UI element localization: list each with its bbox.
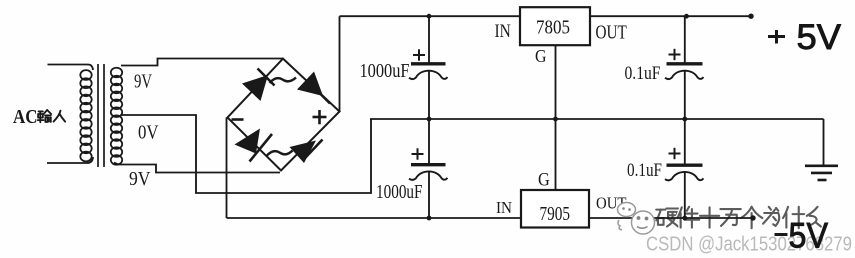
label 9V top tap <box>134 71 152 93</box>
bridge diode D1b (upper-left) triangle and cathode bar <box>242 69 275 102</box>
watermark text CSDN @Jack15302768279 <box>646 233 852 256</box>
label U1 pin OUT <box>596 23 627 44</box>
svg-text:0.1uF: 0.1uF <box>625 63 661 84</box>
capacitor C1 top wire <box>428 16 430 63</box>
wire ground mid rail <box>370 118 824 120</box>
bridge AC mark (~) bottom <box>267 151 293 157</box>
transformer T1 primary top lead wire <box>48 65 94 71</box>
capacitor C4 top wire <box>684 119 686 164</box>
ground symbol <box>805 119 838 180</box>
junction node top rail / C1 <box>427 14 432 19</box>
terminal node -5V <box>750 215 755 220</box>
wire bridge negative corner down to negative rail <box>226 118 228 219</box>
capacitor C2 bottom wire <box>428 172 430 218</box>
label U2 pin OUT <box>596 194 627 213</box>
transformer T1 primary bottom lead wire <box>47 157 93 163</box>
regulator U1 7805 ground pin wire <box>555 45 557 119</box>
label C1 value 1000uF <box>360 60 410 82</box>
regulator U2 7905 ground pin wire <box>555 119 557 190</box>
svg-text:9V: 9V <box>134 71 152 93</box>
svg-text:5V: 5V <box>789 217 829 256</box>
capacitor C3 polarity + <box>669 49 681 60</box>
bridge rectifier D1 diamond outline <box>228 59 340 171</box>
svg-text:AC: AC <box>13 106 38 128</box>
label U2 pin G <box>538 169 550 190</box>
capacitor C4 bottom wire <box>684 173 686 219</box>
label U1 pin IN <box>495 21 512 42</box>
bridge diode D1c (upper-right) triangle and cathode bar <box>297 72 330 104</box>
svg-text:0.1uF: 0.1uF <box>627 160 662 181</box>
capacitor C3 top wire <box>684 16 686 63</box>
junction node negative rail / C2 <box>427 216 432 221</box>
transformer T1 core <box>98 64 104 167</box>
bridge diode D1a (lower-left) triangle and cathode bar <box>235 129 273 162</box>
svg-text:1000uF: 1000uF <box>376 181 423 203</box>
label C2 value 1000uF <box>376 181 423 203</box>
junction node -5V rail / C4 <box>682 216 687 221</box>
wire bridge positive corner up to top rail <box>339 16 341 111</box>
label C3 value 0.1uF <box>625 63 661 84</box>
label 9V bottom tap <box>129 168 151 190</box>
capacitor C2 polarity + <box>412 148 424 159</box>
capacitor C1 bottom wire <box>428 71 430 119</box>
svg-text:7905: 7905 <box>540 203 571 225</box>
svg-text:9V: 9V <box>129 168 151 190</box>
bridge diode D1d (lower-right) triangle and cathode bar <box>290 140 323 164</box>
capacitor C1 polarity + <box>413 49 425 60</box>
capacitor C4 polarity + <box>669 148 681 159</box>
wire secondary 9V top tap to bridge AC top node <box>121 59 283 66</box>
svg-text:5V: 5V <box>797 18 842 57</box>
capacitor C4 curved negative plate <box>665 172 704 180</box>
capacitor C1 curved negative plate <box>409 71 448 79</box>
svg-text:IN: IN <box>495 21 512 42</box>
label U2 pin IN <box>496 198 512 217</box>
wire secondary 9V bottom tap to bridge AC bottom node <box>114 163 280 173</box>
capacitor C3 curved negative plate <box>665 71 704 79</box>
label +5V output <box>768 18 842 57</box>
label U1 pin G <box>535 46 547 66</box>
watermark text 硬件十万个为什么 <box>656 207 821 228</box>
regulator U2 7905 box <box>521 190 589 228</box>
wire secondary 0V center tap to ground mid rail <box>121 115 371 193</box>
wire 7905 OUT to -5V terminal <box>589 217 753 219</box>
svg-text:0V: 0V <box>138 122 159 144</box>
capacitor C2 curved negative plate <box>409 171 448 179</box>
capacitor C1 positive plate <box>411 62 446 65</box>
label -5V output <box>775 217 829 256</box>
transformer T1 primary winding <box>80 70 91 161</box>
svg-text:G: G <box>535 46 547 66</box>
svg-text:7805: 7805 <box>536 18 570 39</box>
bridge minus terminal mark <box>232 118 244 121</box>
bridge plus terminal mark <box>313 110 327 124</box>
capacitor C3 bottom wire <box>684 71 686 119</box>
capacitor C4 positive plate <box>667 164 703 167</box>
bridge AC mark (~) top <box>270 78 297 84</box>
terminal node +5V <box>748 14 753 19</box>
capacitor C3 positive plate <box>667 62 703 65</box>
watermark logo (cartoon mascot) <box>618 203 655 235</box>
junction node mid rail / C3-C4 <box>682 117 687 122</box>
junction node mid rail / G pins <box>553 117 558 122</box>
capacitor C2 positive plate <box>411 163 446 166</box>
wire negative rail to 7905 IN <box>227 217 523 219</box>
svg-text:G: G <box>538 169 550 190</box>
transformer T1 secondary winding <box>111 68 122 165</box>
label AC input (AC输入) <box>13 106 65 128</box>
capacitor C2 top wire <box>428 119 430 164</box>
wire +5V top rail <box>340 15 752 17</box>
junction node top rail / C3 <box>684 14 689 19</box>
svg-text:OUT: OUT <box>596 23 627 44</box>
svg-text:IN: IN <box>496 198 512 217</box>
label 0V center tap <box>138 122 159 144</box>
junction node mid rail / C1-C2 <box>427 117 432 122</box>
label C4 value 0.1uF <box>627 160 662 181</box>
regulator U1 7805 box <box>520 7 590 45</box>
svg-text:1000uF: 1000uF <box>360 60 410 82</box>
